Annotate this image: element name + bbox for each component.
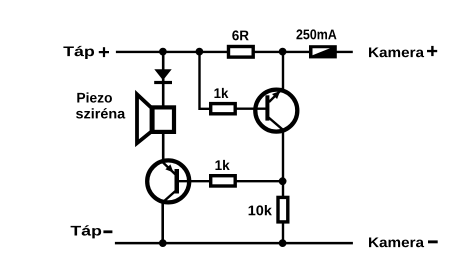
node bottom rail / Q2 collector junction — [159, 239, 167, 247]
label 1k upper value — [214, 88, 228, 98]
label 6R value — [232, 30, 248, 40]
resistor 10k — [278, 197, 288, 222]
diode D1 — [154, 69, 172, 84]
node top rail / Q1 emitter junction — [279, 48, 287, 56]
piezo siren LS1 — [137, 94, 174, 143]
wire node B to lower 1k resistor — [237, 180, 284, 182]
label 1k lower value — [215, 160, 229, 170]
label Táp − — [71, 225, 102, 238]
Q1 base bar — [265, 95, 269, 120]
wire transistor Q1 emitter to top rail — [282, 52, 284, 89]
Q2 base bar — [175, 169, 180, 194]
Q2 collector lead — [163, 191, 177, 203]
wire bottom supply rail — [115, 242, 353, 245]
wire transistor Q1 collector down to node B — [282, 132, 284, 197]
label Kamera − — [369, 237, 424, 247]
Q1 collector lead — [268, 117, 285, 131]
label 250mA value — [296, 29, 336, 39]
node top rail / 1k branch junction — [196, 48, 204, 56]
node bottom rail / 10k junction — [279, 239, 287, 247]
label 10k value — [249, 205, 272, 215]
Q2 emitter arrow — [165, 164, 173, 172]
wire branch to upper 1k resistor — [200, 52, 211, 109]
transistor Q2 (lower left, mirrored) — [147, 160, 211, 202]
wire 10k resistor to bottom rail — [282, 223, 284, 244]
Q2 emitter lead — [163, 162, 177, 175]
node B: Q1 collector / 1k / 10k junction — [279, 177, 287, 185]
wire transistor Q2 collector to bottom rail — [161, 203, 164, 243]
Q1 emitter arrow — [272, 91, 280, 99]
label Táp + — [63, 46, 94, 59]
label Piezo sziréna — [77, 92, 112, 102]
node top rail / diode junction — [159, 48, 167, 56]
label Kamera + — [369, 47, 424, 57]
wire Q1 base lead — [237, 107, 267, 109]
wire Q2 base lead — [177, 180, 211, 182]
wire top supply rail — [116, 51, 353, 53]
resistor 1k (upper, Q1 base) — [211, 104, 236, 114]
Q1 emitter lead — [269, 88, 283, 102]
wire left branch down through diode and piezo — [162, 52, 165, 161]
resistor 1k (lower, Q2 base) — [211, 176, 236, 186]
resistor 6R — [229, 47, 254, 58]
fuse 250mA — [309, 45, 337, 58]
transistor Q1 (upper right) — [237, 88, 298, 132]
